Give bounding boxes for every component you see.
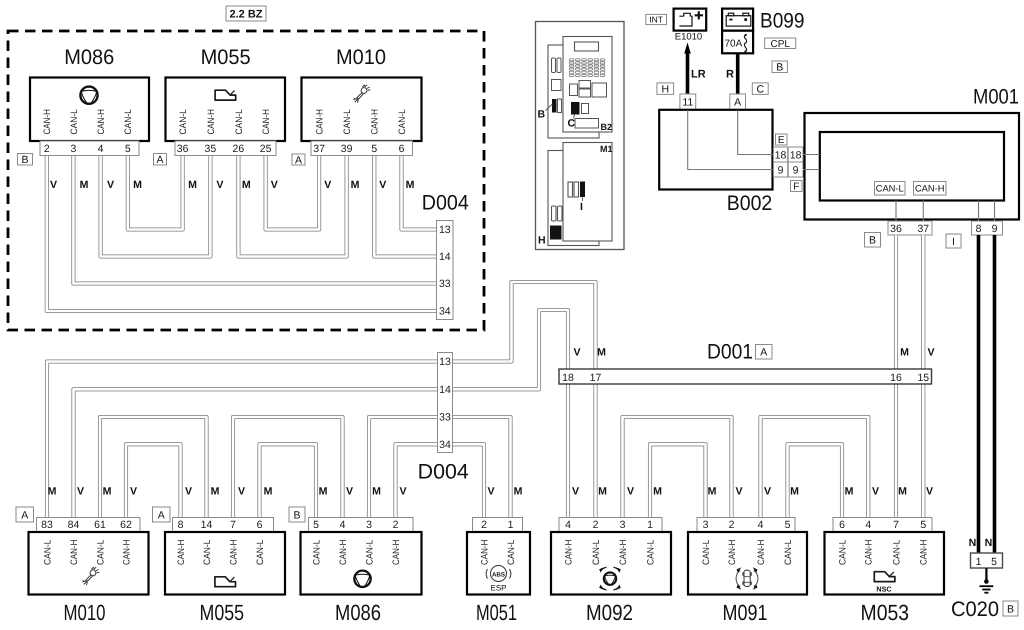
label box B (CPL): [772, 61, 787, 74]
M001 inner module: [820, 132, 1004, 201]
svg-text:33: 33: [439, 412, 451, 424]
svg-text:CAN-L: CAN-L: [255, 540, 265, 565]
svg-text:C: C: [568, 118, 576, 130]
svg-text:2: 2: [393, 519, 399, 531]
svg-text:M: M: [211, 486, 220, 498]
svg-text:CAN-H: CAN-H: [176, 540, 186, 565]
svg-text:M: M: [653, 486, 662, 498]
svg-text:2: 2: [729, 519, 735, 531]
fuse box / body computer location drawing: [536, 22, 625, 250]
icon boot lid M055: [215, 90, 236, 100]
wire D004 pin13 to D001 pin17 (CAN-L M): [453, 282, 596, 369]
connector strip M053 bottom: [833, 518, 932, 533]
svg-text:CAN-L: CAN-L: [891, 540, 901, 565]
label box CPL: [765, 38, 796, 50]
pin labels M055 top: [178, 109, 271, 134]
pin labels M086 bottom: [311, 540, 401, 565]
svg-text:15: 15: [917, 372, 929, 384]
node M086 (steering angle sensor) top box: [30, 78, 149, 142]
svg-text:CAN-H: CAN-H: [919, 540, 929, 565]
wire M001 pin37 to D001 pin15 (CAN-H V): [921, 235, 925, 369]
svg-text:M: M: [898, 486, 907, 498]
node M051 (ABS/ESP) bottom box: [467, 532, 530, 595]
wire M055 pin7 to M086 pin4 (CAN-H V): [233, 417, 343, 518]
wire colour letters M001-D001: [900, 347, 934, 359]
icon vehicle top view M091: [736, 570, 758, 587]
svg-text:M010: M010: [336, 46, 386, 69]
svg-text:B: B: [538, 109, 546, 121]
connector C020 pins 1 5: [971, 553, 1003, 568]
svg-text:36: 36: [890, 223, 902, 235]
svg-text:3: 3: [620, 519, 626, 531]
svg-text:A: A: [21, 509, 28, 521]
svg-text:M: M: [319, 486, 328, 498]
svg-text:M: M: [598, 486, 607, 498]
svg-text:M: M: [597, 347, 606, 359]
svg-text:M: M: [845, 486, 854, 498]
svg-text:ABS: ABS: [492, 572, 505, 579]
svg-text:B: B: [776, 62, 783, 74]
wire M001 pin18 into module: [803, 154, 820, 156]
wire M001 stub pin37: [922, 201, 924, 222]
svg-text:7: 7: [893, 519, 899, 531]
label box E (pin18): [776, 134, 788, 146]
svg-text:ESP: ESP: [490, 584, 506, 593]
svg-text:CAN-H: CAN-H: [228, 540, 238, 565]
svg-text:6: 6: [257, 519, 263, 531]
svg-text:2: 2: [593, 519, 599, 531]
svg-text:CAN-H: CAN-H: [96, 109, 106, 134]
wire M055 pin26 to M010 pin39 (CAN-L M): [238, 156, 346, 257]
svg-text:13: 13: [439, 356, 451, 368]
wire D001 pin18 to M092 pin4 (CAN-H V): [566, 384, 570, 518]
connector strip M055 bottom: [173, 518, 274, 533]
svg-text:16: 16: [890, 372, 902, 384]
svg-text:V: V: [346, 486, 353, 498]
svg-text:V: V: [872, 486, 879, 498]
wire M001 stub pin8: [978, 201, 980, 222]
svg-text:34: 34: [439, 306, 451, 318]
svg-text:3: 3: [366, 519, 372, 531]
battery B099 box: [722, 9, 753, 31]
wire B002 internal pin 11 to pin 9: [688, 110, 774, 170]
pin labels M055 bottom: [176, 540, 265, 565]
icon steering wheel with arrows M092: [601, 567, 620, 590]
icon boot lid M053 with NSC: [874, 572, 895, 582]
svg-text:CAN-H: CAN-H: [479, 540, 489, 565]
svg-text:V: V: [50, 179, 57, 191]
label box B (M086 bottom): [289, 507, 305, 522]
svg-text:M: M: [790, 486, 799, 498]
svg-text:4: 4: [565, 519, 571, 531]
connector strip M010 bottom: [37, 518, 141, 533]
svg-text:5: 5: [313, 519, 319, 531]
svg-text:M: M: [133, 179, 142, 191]
wire LR feed to E1010 (black N): [686, 52, 690, 94]
svg-text:V: V: [627, 486, 634, 498]
svg-text:V: V: [324, 179, 331, 191]
svg-text:CAN-H: CAN-H: [756, 540, 766, 565]
svg-text:3: 3: [703, 519, 709, 531]
icon boot lid M055 bottom: [215, 577, 236, 587]
label box H (B002 pin11): [657, 83, 674, 96]
svg-text:A: A: [158, 509, 165, 521]
svg-text:M055: M055: [201, 46, 251, 69]
wire M091 pin4 to M053 pin4 (CAN-H V): [761, 417, 869, 518]
svg-text:I: I: [952, 236, 955, 248]
arrow head LR: [684, 43, 691, 54]
svg-text:R: R: [726, 69, 734, 81]
connector I (black) on fusebox: [580, 182, 585, 198]
svg-text:M055: M055: [200, 600, 245, 625]
svg-text:M: M: [80, 179, 89, 191]
icon battery E1010: [679, 11, 703, 26]
svg-text:11: 11: [682, 97, 693, 109]
svg-text:4: 4: [758, 519, 764, 531]
wire M010 pin62 to M055 pin8 (CAN-H V): [126, 444, 181, 517]
svg-text:CAN-L: CAN-L: [69, 109, 79, 134]
pin labels M051 bottom: [479, 540, 516, 565]
svg-text:B: B: [293, 509, 300, 521]
svg-text:7: 7: [230, 519, 236, 531]
svg-text:V: V: [379, 179, 386, 191]
svg-text:CAN-H: CAN-H: [915, 184, 944, 194]
svg-text:C020: C020: [951, 598, 999, 621]
wire M055 pin6 to M086 pin5 (CAN-L M): [260, 444, 317, 517]
svg-text:CAN-H: CAN-H: [391, 540, 401, 565]
connector strip M086 top pins 2 3 4 5: [40, 141, 139, 156]
svg-text:CAN-L: CAN-L: [506, 540, 516, 565]
svg-text:CAN-L: CAN-L: [397, 109, 407, 134]
svg-text:4: 4: [865, 519, 871, 531]
wire D001 pin15 to M053 pin5 (CAN-H V): [921, 384, 925, 518]
ground wire C020: [985, 568, 987, 581]
pin labels M010 bottom: [42, 540, 131, 565]
svg-text:CAN-H: CAN-H: [315, 109, 325, 134]
svg-text:M086: M086: [335, 600, 381, 625]
svg-text:V: V: [764, 486, 771, 498]
svg-text:5: 5: [125, 143, 131, 155]
svg-text:18: 18: [790, 150, 802, 162]
svg-text:B099: B099: [760, 10, 805, 33]
wire M001 pin36 to D001 pin16 (CAN-L M): [894, 235, 898, 369]
svg-text:61: 61: [94, 519, 106, 531]
svg-text:4: 4: [340, 519, 346, 531]
svg-text:14: 14: [439, 384, 451, 396]
svg-text:CAN-H: CAN-H: [370, 109, 380, 134]
connector D004 bottom: [438, 353, 453, 453]
svg-text:M051: M051: [476, 600, 517, 625]
node M055 (boot node) bottom box: [165, 532, 285, 595]
wire R feed from fuse 70A (black N): [736, 54, 740, 95]
svg-text:CAN-H: CAN-H: [727, 540, 737, 565]
svg-text:25: 25: [260, 143, 272, 155]
wire M086 pin4 to M055 pin35 (CAN-H V): [101, 156, 211, 257]
icon battery B099: [726, 13, 751, 26]
node M001 (instrument panel) outer: [805, 113, 1020, 220]
svg-text:CAN-H: CAN-H: [618, 540, 628, 565]
svg-text:E1010: E1010: [675, 32, 702, 43]
svg-text:D004: D004: [422, 192, 469, 215]
connector strip M091 bottom: [697, 518, 795, 533]
label box A (D001): [756, 345, 773, 360]
svg-text:26: 26: [233, 143, 245, 155]
svg-text:CAN-H: CAN-H: [864, 540, 874, 565]
node M092 (power steering) bottom box: [551, 532, 671, 595]
pin labels M092 bottom: [563, 540, 655, 565]
wire M001 stub pin9b: [994, 201, 996, 222]
svg-text:H: H: [538, 235, 546, 247]
svg-text:M: M: [708, 486, 717, 498]
connector D001 bar: [559, 369, 932, 384]
svg-text:1: 1: [976, 556, 982, 568]
svg-text:B2: B2: [601, 122, 613, 132]
svg-text:V: V: [107, 179, 114, 191]
label box INT: [646, 14, 667, 24]
fusebox lower assembly M1: [548, 143, 612, 246]
wire D004 pin14 to M010 pin84 (CAN-H V): [74, 389, 438, 517]
wire M092 pin3 to M091 pin2 (CAN-H V): [623, 417, 732, 518]
svg-text:V: V: [399, 486, 406, 498]
svg-text:9: 9: [793, 165, 799, 177]
svg-text:V: V: [271, 179, 278, 191]
svg-text:CPL: CPL: [770, 39, 790, 50]
svg-text:M: M: [351, 179, 360, 191]
wire M001 pin9 to C020 pin5 (N) (black N): [993, 235, 997, 553]
label box I (M001 8/9): [946, 234, 961, 248]
svg-text:A: A: [295, 154, 302, 166]
fuse symbol squiggle: [744, 35, 746, 52]
svg-text:14: 14: [201, 519, 213, 531]
pin cells 18/9 between B002 and M001: [773, 147, 803, 177]
svg-text:B: B: [1007, 603, 1014, 615]
wire colour letters above D001 left: [573, 347, 606, 359]
svg-text:36: 36: [177, 143, 189, 155]
wire M001 pin9 into module: [803, 169, 820, 171]
wire M086 pin3 to D004 pin33 (CAN-L M): [73, 156, 436, 284]
connector strip M001 pins 8 9: [972, 221, 1003, 235]
svg-text:CAN-H: CAN-H: [69, 540, 79, 565]
svg-text:B: B: [869, 235, 876, 247]
svg-text:62: 62: [120, 519, 132, 531]
svg-text:CAN-H: CAN-H: [261, 109, 271, 134]
keypad grid: [569, 59, 605, 77]
node M091 (parking sensors) bottom box: [688, 532, 807, 595]
wire M055 pin25 to M010 pin37 (CAN-H V): [266, 156, 320, 230]
svg-text:A: A: [760, 347, 767, 359]
icon steering wheel M086 bottom: [354, 571, 370, 587]
node M010 (ignition node) bottom box: [29, 532, 149, 595]
svg-text:V: V: [572, 486, 579, 498]
node M086 (steering sensor) bottom box: [301, 532, 422, 595]
connector strip M092 bottom: [559, 518, 662, 533]
svg-text:5: 5: [371, 143, 377, 155]
label box pin 11 of B002: [680, 94, 696, 110]
svg-text:CAN-H: CAN-H: [42, 109, 52, 134]
connector B (black) on fusebox: [552, 99, 557, 113]
svg-text:2: 2: [481, 519, 487, 531]
svg-text:V: V: [927, 347, 934, 359]
svg-text:I: I: [580, 201, 583, 213]
svg-text:V: V: [573, 347, 580, 359]
connector strip M086 bottom: [309, 518, 414, 533]
svg-text:1: 1: [647, 519, 653, 531]
svg-text:M091: M091: [723, 600, 768, 625]
label box A (M055 top): [154, 154, 167, 167]
svg-text:M: M: [103, 486, 112, 498]
svg-text:CAN-L: CAN-L: [837, 540, 847, 565]
svg-text:CAN-L: CAN-L: [311, 540, 321, 565]
fusebox small parts: [552, 58, 607, 128]
svg-text:39: 39: [341, 143, 353, 155]
svg-text:14: 14: [439, 251, 451, 263]
svg-text:M1: M1: [600, 144, 613, 154]
svg-text:E: E: [778, 135, 785, 146]
svg-text:5: 5: [991, 556, 997, 568]
svg-text:CAN-L: CAN-L: [234, 109, 244, 134]
svg-text:18: 18: [775, 150, 787, 162]
wire M001 pin8 to C020 pin1 (N) (black N): [977, 235, 981, 553]
svg-text:5: 5: [920, 519, 926, 531]
label box A (M010 top): [292, 154, 305, 166]
svg-text:V: V: [735, 486, 742, 498]
svg-text:NSC: NSC: [876, 585, 891, 594]
ground symbol: [980, 586, 994, 593]
connector H (black) on fusebox: [550, 226, 562, 240]
svg-text:INT: INT: [649, 15, 663, 25]
label box C (B002 pinA): [752, 83, 768, 96]
svg-text:34: 34: [439, 439, 451, 451]
svg-text:M: M: [48, 486, 57, 498]
pin labels M091 bottom: [701, 540, 793, 565]
battery feed E1010 box: [674, 9, 707, 31]
wire M010 pin6 to D004 pin13 (CAN-L M): [402, 156, 437, 230]
wire M086 pin5 to M055 pin36 (CAN-L M): [128, 156, 183, 230]
svg-text:9: 9: [778, 165, 784, 177]
svg-text:84: 84: [68, 519, 80, 531]
label box pin A of B002: [730, 94, 746, 110]
svg-text:N: N: [969, 537, 977, 549]
connector strip M001 pins 36 37: [888, 221, 932, 235]
svg-text:M: M: [900, 347, 909, 359]
svg-text:M: M: [406, 179, 415, 191]
svg-text:B002: B002: [727, 192, 773, 215]
pin labels M053 bottom: [837, 540, 928, 565]
svg-text:13: 13: [439, 224, 451, 236]
svg-text:V: V: [238, 486, 245, 498]
svg-text:M: M: [514, 486, 523, 498]
svg-text:M053: M053: [861, 600, 910, 625]
svg-text:9: 9: [992, 223, 998, 235]
wire M092 pin1 to M091 pin3 (CAN-L M): [650, 444, 706, 517]
wire M086 pin3 to D004 pin33 (CAN-L M): [369, 417, 438, 518]
wire D001 pin16 to M053 pin7 (CAN-L M): [894, 384, 898, 518]
svg-text:B: B: [21, 154, 28, 166]
connector D004 top: [437, 221, 454, 320]
wire B002 internal pin A to pin 18: [738, 110, 774, 155]
svg-text:N: N: [985, 537, 993, 549]
connector strip M051 bottom: [473, 518, 523, 533]
label box B (M086 top): [18, 154, 33, 167]
svg-text:CAN-L: CAN-L: [364, 540, 374, 565]
pin labels M010 top: [315, 109, 407, 134]
svg-text:V: V: [185, 486, 192, 498]
svg-text:A: A: [734, 97, 741, 109]
connector C (black) on fusebox: [571, 102, 580, 115]
svg-text:CAN-H: CAN-H: [121, 540, 131, 565]
svg-text:H: H: [661, 83, 669, 95]
label box CAN-H in M001: [914, 182, 947, 196]
wire colour letters bottom row: [48, 486, 933, 498]
svg-text:D004: D004: [418, 461, 469, 484]
node M053 (NBC rear node) bottom box: [825, 532, 945, 595]
svg-text:M: M: [264, 486, 273, 498]
wire M091 pin5 to M053 pin6 (CAN-L M): [788, 444, 843, 517]
wire D004 pin33 to M051 pin1 (CAN-L M): [453, 417, 511, 518]
wire M001 stub pin36: [895, 201, 897, 222]
svg-text:37: 37: [917, 223, 929, 235]
svg-text:CAN-L: CAN-L: [178, 109, 188, 134]
svg-text:6: 6: [839, 519, 845, 531]
node M055 (boot node) top box: [166, 78, 286, 142]
label 2.2 BZ: [226, 6, 266, 21]
wire D004 pin13 to M010 pin83 (CAN-L M): [47, 362, 438, 518]
svg-text:M092: M092: [586, 600, 633, 625]
wire colour letters top row: [50, 179, 415, 191]
svg-text:LR: LR: [691, 69, 706, 81]
label box F (pin9): [791, 181, 803, 193]
svg-text:2: 2: [44, 143, 50, 155]
fuse 70A box: [722, 31, 753, 54]
node B002 (body computer): [659, 110, 772, 190]
svg-text:V: V: [130, 486, 137, 498]
svg-text:2.2 BZ: 2.2 BZ: [230, 8, 263, 20]
wire M010 pin5 to D004 pin14 (CAN-H V): [374, 156, 436, 257]
svg-text:18: 18: [562, 372, 574, 384]
wire M086 pin2 to D004 pin34 (CAN-H V): [47, 156, 437, 312]
svg-text:CAN-L: CAN-L: [42, 540, 52, 565]
svg-text:8: 8: [178, 519, 184, 531]
svg-text:35: 35: [205, 143, 217, 155]
label box A (M055 bottom): [153, 507, 171, 522]
svg-text:CAN-H: CAN-H: [563, 540, 573, 565]
svg-text:8: 8: [976, 223, 982, 235]
svg-text:F: F: [793, 182, 799, 193]
svg-text:83: 83: [41, 519, 53, 531]
svg-text:CAN-L: CAN-L: [342, 109, 352, 134]
svg-text:3: 3: [70, 143, 76, 155]
svg-text:CAN-H: CAN-H: [206, 109, 216, 134]
svg-text:C: C: [756, 83, 764, 95]
label box CAN-L in M001: [875, 182, 906, 196]
icon ABS ESP M051: [486, 566, 511, 582]
icon ignition key M010: [353, 85, 370, 103]
wire D004 pin14 to D001 pin18 (CAN-H V): [453, 310, 569, 389]
node M010 (ignition node) top box: [302, 78, 422, 142]
svg-text:CAN-L: CAN-L: [591, 540, 601, 565]
connector strip M055 top pins 36 35 26 25: [175, 141, 276, 156]
svg-text:70A: 70A: [725, 39, 743, 50]
svg-text:CAN-L: CAN-L: [95, 540, 105, 565]
wire M086 pin2 to D004 pin34 (CAN-H V): [396, 444, 438, 517]
wire colour letters C020 N labels: [969, 537, 993, 549]
svg-text:M010: M010: [64, 600, 106, 625]
svg-text:CAN-L: CAN-L: [123, 109, 133, 134]
svg-text:CAN-H: CAN-H: [338, 540, 348, 565]
wire D004 pin34 to M051 pin2 (CAN-H V): [453, 444, 485, 517]
svg-text:V: V: [487, 486, 494, 498]
svg-text:CAN-L: CAN-L: [645, 540, 655, 565]
